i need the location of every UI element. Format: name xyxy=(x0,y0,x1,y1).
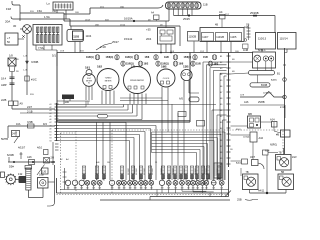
svg-text:31B: 31B xyxy=(80,187,83,189)
svg-text:CLOCK: CLOCK xyxy=(163,78,170,80)
svg-text:A4(4): A4(4) xyxy=(236,162,242,165)
svg-text:B8: B8 xyxy=(220,98,222,100)
svg-text:7,5A: 7,5A xyxy=(38,46,44,50)
svg-text:31B: 31B xyxy=(118,187,121,189)
svg-text:A9: A9 xyxy=(50,128,52,131)
svg-text:31B: 31B xyxy=(196,187,199,189)
svg-text:18B: 18B xyxy=(95,25,99,27)
svg-text:31B: 31B xyxy=(167,187,170,189)
svg-text:5B: 5B xyxy=(281,171,284,174)
svg-text:4B: 4B xyxy=(215,24,218,27)
svg-text:25/25: 25/25 xyxy=(183,17,190,21)
svg-text:15/8(4): 15/8(4) xyxy=(106,56,114,59)
svg-text:12/3(4): 12/3(4) xyxy=(243,137,250,139)
svg-text:110/2B: 110/2B xyxy=(189,36,197,39)
svg-text:15/8: 15/8 xyxy=(196,63,201,66)
svg-text:F18: F18 xyxy=(6,7,11,11)
svg-text:A4/11: A4/11 xyxy=(258,190,265,193)
svg-text:31B: 31B xyxy=(140,187,143,189)
svg-text:19/8: 19/8 xyxy=(164,56,169,59)
svg-text:31B: 31B xyxy=(92,187,95,189)
svg-text:19B: 19B xyxy=(161,65,167,69)
svg-text:31B: 31B xyxy=(74,187,77,189)
svg-text:B1: B1 xyxy=(50,132,52,134)
svg-text:18.4: 18.4 xyxy=(1,77,7,81)
svg-text:25B: 25B xyxy=(237,198,242,202)
svg-text:31B: 31B xyxy=(111,187,114,189)
svg-text:110/5: 110/5 xyxy=(230,36,237,39)
svg-text:30: 30 xyxy=(13,24,17,28)
svg-text:A10: A10 xyxy=(259,136,264,140)
svg-text:31B: 31B xyxy=(150,187,153,189)
svg-text:31B: 31B xyxy=(161,187,164,189)
svg-text:A5RG): A5RG) xyxy=(270,144,277,147)
svg-text:31/16B: 31/16B xyxy=(136,168,138,175)
svg-text:31B: 31B xyxy=(67,187,70,189)
svg-text:31B: 31B xyxy=(105,20,109,22)
svg-text:16/8(1): 16/8(1) xyxy=(86,56,94,59)
svg-text:B1(L): B1(L) xyxy=(236,129,241,131)
svg-text:31B: 31B xyxy=(205,187,208,189)
svg-text:B4: B4 xyxy=(50,141,52,143)
svg-text:7in: 7in xyxy=(88,83,90,85)
svg-text:110/13: 110/13 xyxy=(258,37,267,41)
svg-text:A16: A16 xyxy=(244,101,249,104)
svg-text:31B: 31B xyxy=(80,51,84,53)
svg-text:11B: 11B xyxy=(203,3,208,7)
svg-text:2-1B: 2-1B xyxy=(280,106,286,109)
svg-text:4/10: 4/10 xyxy=(37,146,43,150)
svg-text:B4: B4 xyxy=(220,128,222,130)
svg-text:1-1B: 1-1B xyxy=(23,70,28,72)
svg-text:16A: 16A xyxy=(120,6,124,9)
svg-text:B5: B5 xyxy=(220,80,222,82)
svg-text:1,5A: 1,5A xyxy=(44,15,50,19)
svg-text:192: 192 xyxy=(97,65,102,69)
svg-text:31B: 31B xyxy=(30,11,34,13)
svg-text:6/32-1: 6/32-1 xyxy=(258,48,266,52)
svg-text:2/8: 2/8 xyxy=(51,157,55,160)
svg-text:31B: 31B xyxy=(192,187,195,189)
svg-text:A8: A8 xyxy=(50,125,52,128)
svg-text:24/7: 24/7 xyxy=(12,133,17,136)
svg-text:B3: B3 xyxy=(220,68,222,70)
svg-text:Lo: Lo xyxy=(47,2,51,6)
svg-text:7B: 7B xyxy=(279,151,282,154)
svg-text:191: 191 xyxy=(85,66,90,70)
svg-text:2-1B: 2-1B xyxy=(27,109,33,113)
svg-text:#1/C: #1/C xyxy=(31,78,37,82)
svg-text:31B: 31B xyxy=(174,187,177,189)
svg-text:19/2: 19/2 xyxy=(214,63,219,66)
svg-text:4/15/7: 4/15/7 xyxy=(18,146,26,150)
svg-text:16/8(1): 16/8(1) xyxy=(125,56,133,59)
svg-text:D5#: D5# xyxy=(9,165,14,169)
svg-text:7B: 7B xyxy=(246,171,249,174)
svg-text:A16: A16 xyxy=(27,155,32,159)
svg-text:5/1: 5/1 xyxy=(52,54,56,58)
svg-text:SPEEDOMETER: SPEEDOMETER xyxy=(130,80,144,82)
svg-text:1103: 1103 xyxy=(73,35,79,39)
svg-text:31B: 31B xyxy=(187,187,190,189)
svg-text:25/27: 25/27 xyxy=(112,40,119,44)
svg-text:B6: B6 xyxy=(220,86,222,88)
svg-text:31B: 31B xyxy=(181,187,184,189)
svg-text:15/8: 15/8 xyxy=(145,56,150,59)
svg-text:15/14: 15/14 xyxy=(120,25,126,27)
svg-text:X/3B: X/3B xyxy=(27,120,33,124)
svg-text:X/30B: X/30B xyxy=(31,60,39,64)
svg-text:8/19B: 8/19B xyxy=(261,84,268,87)
svg-text:B9: B9 xyxy=(220,104,222,106)
svg-text:B2: B2 xyxy=(220,116,222,118)
svg-text:MB: MB xyxy=(248,112,252,116)
svg-text:19/2: 19/2 xyxy=(144,63,149,66)
svg-text:15A: 15A xyxy=(37,9,42,13)
svg-text:16/19: 16/19 xyxy=(85,20,91,22)
svg-text:10A: 10A xyxy=(16,123,21,126)
svg-text:A4: A4 xyxy=(219,10,223,14)
svg-text:16/19A: 16/19A xyxy=(124,17,133,21)
svg-text:31B: 31B xyxy=(212,187,215,189)
svg-text:110/2B: 110/2B xyxy=(216,36,224,39)
svg-text:1/8: 1/8 xyxy=(9,54,13,58)
svg-text:A/5: A/5 xyxy=(179,97,183,101)
svg-text:31B: 31B xyxy=(134,187,137,189)
svg-text:24/7: 24/7 xyxy=(27,105,33,109)
svg-text:25/8B: 25/8B xyxy=(258,101,265,104)
svg-text:A1: A1 xyxy=(50,103,52,106)
svg-text:B2: B2 xyxy=(50,135,52,137)
svg-text:16B: 16B xyxy=(75,12,79,14)
svg-text:15/8(1): 15/8(1) xyxy=(184,56,192,59)
svg-text:16B: 16B xyxy=(39,173,44,177)
svg-text:20A: 20A xyxy=(5,20,10,24)
svg-text:+7: +7 xyxy=(7,36,11,40)
svg-text:15/142: 15/142 xyxy=(124,37,133,41)
svg-text:D/4: D/4 xyxy=(43,123,47,126)
svg-text:TURBO: TURBO xyxy=(105,78,112,80)
svg-text:A6: A6 xyxy=(50,118,52,121)
svg-text:1104: 1104 xyxy=(86,34,92,38)
svg-text:+35: +35 xyxy=(146,28,151,32)
svg-text:A14: A14 xyxy=(270,118,275,122)
svg-text:METER: METER xyxy=(105,81,112,83)
svg-text:B3: B3 xyxy=(50,138,52,140)
svg-text:110/14: 110/14 xyxy=(280,37,289,41)
svg-text:1-1B: 1-1B xyxy=(23,56,28,58)
svg-text:31B: 31B xyxy=(129,187,132,189)
svg-text:AMP: AMP xyxy=(1,83,7,87)
svg-text:A3: A3 xyxy=(50,109,52,112)
svg-text:B7: B7 xyxy=(220,92,222,94)
svg-text:A4: A4 xyxy=(50,112,52,115)
svg-text:26/4: 26/4 xyxy=(146,37,152,41)
svg-text:A2: A2 xyxy=(50,106,52,109)
svg-text:31B: 31B xyxy=(86,187,89,189)
svg-text:31/16B: 31/16B xyxy=(152,168,154,175)
svg-text:2/2B: 2/2B xyxy=(1,98,7,102)
svg-text:190: 190 xyxy=(65,100,70,104)
svg-text:A9: A9 xyxy=(20,102,24,106)
svg-text:31B: 31B xyxy=(30,94,34,96)
svg-text:B1: B1 xyxy=(220,110,222,112)
svg-text:31B: 31B xyxy=(98,187,101,189)
svg-text:110/7: 110/7 xyxy=(202,36,209,39)
svg-text:B3: B3 xyxy=(220,122,222,124)
svg-text:4/4B: 4/4B xyxy=(243,49,248,52)
svg-text:#B: #B xyxy=(276,134,279,137)
svg-text:34/7: 34/7 xyxy=(250,155,256,159)
svg-text:25/26B: 25/26B xyxy=(250,11,259,15)
svg-text:6/32B: 6/32B xyxy=(7,153,14,157)
svg-text:15/8: 15/8 xyxy=(203,56,208,59)
svg-text:A4(B): A4(B) xyxy=(271,79,277,82)
svg-text:31B: 31B xyxy=(201,187,204,189)
svg-text:31B: 31B xyxy=(123,187,126,189)
svg-text:5MTB: 5MTB xyxy=(1,137,8,141)
svg-text:B2: B2 xyxy=(220,62,222,64)
svg-text:A5: A5 xyxy=(50,115,52,118)
svg-text:16B: 16B xyxy=(235,51,239,53)
svg-text:15A: 15A xyxy=(52,10,56,13)
svg-text:24/2: 24/2 xyxy=(292,156,297,159)
svg-text:13B: 13B xyxy=(183,65,189,69)
svg-text:31B: 31B xyxy=(144,187,147,189)
svg-text:B1: B1 xyxy=(220,56,222,58)
svg-text:132: 132 xyxy=(18,172,23,176)
svg-text:31B: 31B xyxy=(220,187,223,189)
svg-text:B4: B4 xyxy=(220,74,222,76)
svg-text:A7: A7 xyxy=(50,121,52,124)
